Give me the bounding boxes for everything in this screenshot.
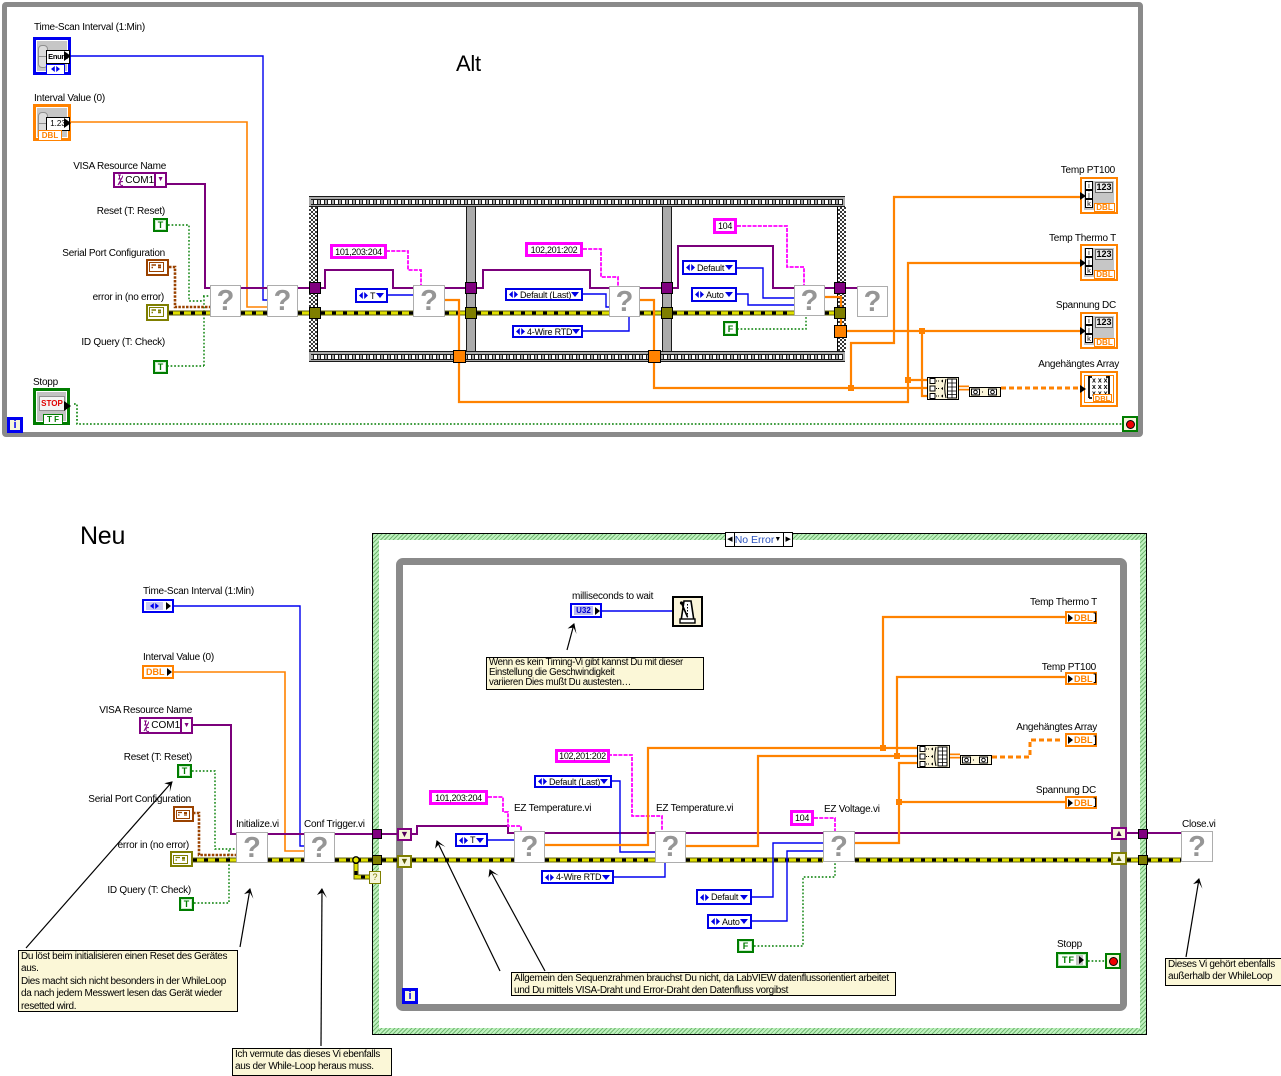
constant string 102,201:202 (Alt) <box>525 242 583 257</box>
wire orange 2D dashed (Neu) <box>992 740 1062 757</box>
label VISA Resource Name <box>73 161 166 173</box>
wire orange EZ2 out (Neu) <box>686 677 1065 846</box>
node reshape array (Alt) <box>969 384 1001 394</box>
constant F boolean (Alt) <box>723 321 738 336</box>
indicator DBL Temp Thermo T (Neu) <box>1065 611 1097 624</box>
sequence tunnel olive right <box>834 307 846 319</box>
wire brown serial config (Neu) <box>193 813 236 855</box>
label Temp PT100 (Neu) <box>1042 662 1096 674</box>
constant enum 4-Wire RTD (Alt) <box>512 325 583 338</box>
wire orange Interval Value (Alt) <box>71 122 267 307</box>
shift register purple right <box>1111 827 1127 840</box>
control Serial Port Configuration (Neu) <box>173 806 194 822</box>
wire orange EZ2 out to Temp PT100 + build array (Alt) <box>640 197 1080 388</box>
constant U32 <box>570 603 602 618</box>
wire orange EZ1 out (Neu) <box>545 617 1065 845</box>
VI EZ Temperature frame1 ? (Alt) <box>413 285 445 317</box>
wire blue Default(Last) frame2 (Alt) <box>583 294 609 307</box>
VI Initialize ? <box>236 832 268 863</box>
wire blue milliseconds (Neu) <box>602 610 672 612</box>
comment note Du löst beim initialisieren <box>18 950 238 1012</box>
constant enum Default (Neu) <box>696 889 752 905</box>
label error in (Neu) <box>118 840 189 852</box>
constant enum T (Neu) <box>455 833 488 847</box>
film band top <box>309 196 845 207</box>
label ID Query <box>81 337 165 349</box>
sequence tunnel olive bar1 <box>465 307 477 319</box>
control error in (Neu) <box>170 851 193 867</box>
label Time-Scan Interval <box>34 22 145 34</box>
VI EZ Voltage frame3 ? (Alt) <box>794 285 825 316</box>
constant F boolean (Neu) <box>737 939 754 953</box>
label Stopp <box>33 377 58 389</box>
wire blue Auto (Neu) <box>752 851 823 921</box>
VI Close ? (Neu) <box>1181 831 1213 862</box>
constant string 101,203:204 (Neu) <box>429 790 488 805</box>
wire purple VISA chain (Alt) <box>167 184 857 288</box>
label Conf Trigger.vi <box>304 819 365 831</box>
indicator DBL Spannung DC (Neu) <box>1065 796 1097 809</box>
wire blue enum T (Neu) <box>488 839 514 841</box>
indicator 2D array Angehängtes Array (Alt) <box>1080 371 1118 407</box>
loop stop condition terminal (Alt) <box>1122 416 1138 432</box>
wire pink 104 (Neu) <box>814 818 835 831</box>
VI EZ Temperature 1 ? <box>514 831 545 863</box>
case tunnel purple right <box>1138 829 1148 839</box>
flat sequence structure <box>309 196 845 362</box>
annotation arrow to Close.vi <box>1186 879 1199 957</box>
wire green F (Neu) <box>754 862 835 946</box>
control Interval Value terminal (Neu) <box>142 665 174 679</box>
sequence tunnel olive bar2 <box>661 307 673 319</box>
sequence tunnel orange frame1 bottom <box>453 350 466 363</box>
constant enum Auto (Neu) <box>707 914 752 929</box>
sequence tunnel purple right <box>834 282 846 294</box>
wire orange EZ3 out to Spannung DC + build array (Alt) <box>825 297 1080 396</box>
case structure No Error border <box>372 533 1147 1035</box>
case tunnel olive left <box>372 855 382 865</box>
indicator array Temp Thermo T (Alt) <box>1080 244 1118 281</box>
control Time-Scan terminal (Neu) <box>142 599 174 613</box>
annotation arrow to sequence wires 1 <box>437 841 500 971</box>
constant string 101,203:204 (Alt) <box>330 244 387 259</box>
control Serial Port Configuration <box>146 259 169 276</box>
label Reset (Neu) <box>124 752 192 764</box>
wire green stop (Alt) <box>74 404 1122 424</box>
wire green ID Query (Neu) <box>194 849 229 903</box>
wire blue 4-Wire RTD (Neu) <box>614 863 665 877</box>
annotation arrow to Initialize.vi <box>240 889 250 947</box>
wire orange EZ Voltage out (Neu) <box>855 763 1065 843</box>
sequence tunnel orange frame2 bottom <box>648 350 661 363</box>
wire pink 101,203:204 (Neu) <box>488 797 521 831</box>
wire blue Time-Scan (Neu) <box>174 606 304 846</box>
wire pink string frame1 (Alt) <box>386 251 421 285</box>
node reshape array (Neu) <box>960 752 992 762</box>
label Alt <box>456 53 481 75</box>
wire blue 4-Wire RTD frame2 (Alt) <box>583 317 629 331</box>
error wire trunk (Alt) <box>169 311 836 316</box>
wire pink string frame3 (Alt) <box>737 226 804 285</box>
comment note Ich vermute <box>232 1048 392 1076</box>
frame bar 1 <box>466 207 476 351</box>
constant string 104 (Neu) <box>790 810 814 826</box>
sequence tunnel olive left <box>309 307 321 319</box>
control VISA resource COM1 <box>113 172 167 188</box>
loop stop condition terminal (Neu) <box>1105 953 1121 969</box>
wire green Reset (Alt) <box>168 225 203 301</box>
label Angehängtes Array (Neu) <box>1016 722 1097 734</box>
constant string 102,201:202 (Neu) <box>555 749 610 763</box>
error probe box <box>369 871 381 884</box>
wire brown serial config (Alt) <box>169 267 210 307</box>
VI Wait ? (Alt) <box>267 285 298 317</box>
label EZ Temperature.vi 1 <box>514 803 591 815</box>
shift register purple left <box>397 828 412 841</box>
label Close.vi <box>1182 819 1216 831</box>
VI Conf Trigger ? <box>304 832 335 863</box>
wire purple VISA chain (Neu) <box>193 725 1181 834</box>
wire blue Auto frame3 (Alt) <box>737 294 794 305</box>
VI EZ Temperature frame2 ? (Alt) <box>609 286 640 317</box>
annotation arrow to Conf Trigger.vi <box>321 889 322 1046</box>
label Serial Port Configuration <box>62 248 165 260</box>
indicator DBL Temp PT100 (Neu) <box>1065 672 1097 685</box>
wire blue Time-Scan (Alt) <box>71 56 267 300</box>
wire orange Interval (Neu) <box>174 672 304 851</box>
sequence tunnel purple bar2 <box>661 282 673 294</box>
sequence tunnel purple left <box>309 282 321 294</box>
label EZ Voltage.vi <box>824 804 880 816</box>
comment note Dieses Vi gehört <box>1165 958 1281 986</box>
label Spannung DC (Neu) <box>1036 785 1096 797</box>
wire green F frame3 (Alt) <box>737 316 806 329</box>
control Time-Scan Interval enum <box>33 37 71 75</box>
label Initialize.vi <box>236 819 279 831</box>
wire orange 1D array double (Neu) <box>950 754 960 759</box>
comment note Allgemein den Sequenzrahmen <box>511 972 896 996</box>
label Temp PT100 (Alt) <box>1061 165 1115 177</box>
error wire trunk (Neu) <box>193 860 1181 877</box>
constant Reset TF <box>153 218 168 232</box>
constant enum Auto (Alt) <box>691 287 737 302</box>
label Interval Value <box>34 93 105 105</box>
error junction dot (Neu) <box>353 857 359 863</box>
constant ID Query TF (Neu) <box>179 897 194 911</box>
constant enum T (Alt) <box>355 288 388 303</box>
control Stopp TF (Neu) <box>1056 952 1088 968</box>
iteration terminal i (Neu) <box>402 988 418 1004</box>
constant ID Query TF <box>153 360 168 374</box>
VI EZ Voltage ? <box>823 831 855 862</box>
label Interval Value (Neu) <box>143 652 214 664</box>
VI Close ? (Alt) <box>857 286 888 317</box>
junction dots (Alt) <box>905 377 911 383</box>
film band bottom <box>309 351 845 362</box>
control Interval Value DBL <box>33 104 71 141</box>
sequence tunnel purple bar1 <box>465 282 477 294</box>
constant enum 4-Wire RTD (Neu) <box>541 870 614 884</box>
control error in <box>146 304 169 321</box>
annotation arrow to Reset TF <box>26 782 172 948</box>
label Temp Thermo T (Alt) <box>1049 233 1116 245</box>
wire orange EZ1 out to Temp Thermo T + build array (Alt) <box>445 263 1080 402</box>
while loop Alt <box>2 2 1143 437</box>
label milliseconds to wait <box>572 591 653 603</box>
wire blue enum T frame1 (Alt) <box>387 294 413 296</box>
label Stopp (Neu) <box>1057 939 1082 951</box>
sequence tunnel orange frame3 right <box>834 325 847 338</box>
while loop Neu <box>396 558 1127 1011</box>
wire orange 1D array double (Alt) <box>959 386 969 391</box>
constant string 104 (Alt) <box>713 218 737 234</box>
wire blue Default(Last) (Neu) <box>612 781 655 852</box>
control Stopp button <box>33 388 70 425</box>
node build array (Neu) <box>917 745 950 768</box>
shift register olive right <box>1111 852 1127 865</box>
label Time-Scan Interval (Neu) <box>143 586 254 598</box>
case tunnel purple left <box>372 829 382 839</box>
VI wait ms metronome <box>672 596 703 627</box>
constant Reset TF (Neu) <box>177 764 192 778</box>
label Spannung DC (Alt) <box>1056 300 1116 312</box>
constant enum Default (Last) (Alt) <box>505 288 583 301</box>
shift register olive left <box>397 855 412 868</box>
label error in <box>93 292 164 304</box>
wire blue Default (Neu) <box>752 843 823 897</box>
case selector No Error <box>725 532 793 547</box>
label Neu <box>80 524 125 549</box>
VI EZ Temperature 2 ? <box>655 831 686 863</box>
annotation arrow to sequence wires 2 <box>490 870 545 971</box>
control VISA COM1 (Neu) <box>139 717 193 734</box>
wire orange 2D dashed to Angehängtes Array (Alt) <box>1001 387 1080 390</box>
wire blue Default frame3 (Alt) <box>737 268 794 298</box>
node build array (Alt) <box>927 377 959 400</box>
label VISA Resource Name (Neu) <box>99 705 192 717</box>
indicator DBL Angehängtes Array (Neu) <box>1065 733 1097 747</box>
wire green ID Query (Alt) <box>167 296 210 366</box>
indicator array Temp PT100 (Alt) <box>1080 177 1118 214</box>
frame bar 2 <box>662 207 672 351</box>
label Reset <box>97 206 165 218</box>
indicator array Spannung DC (Alt) <box>1080 312 1118 349</box>
constant enum Default (Alt) <box>682 260 737 275</box>
checker right edge <box>837 207 846 351</box>
checker left edge <box>309 207 318 351</box>
comment note Wenn es kein Timing-Vi <box>486 657 704 690</box>
label ID Query (Neu) <box>107 885 191 897</box>
constant enum Default (Last) (Neu) <box>534 775 612 788</box>
wire pink string frame2 (Alt) <box>583 249 618 286</box>
wire pink 102,201:202 (Neu) <box>608 755 662 831</box>
label Angehängtes Array (Alt) <box>1038 359 1119 371</box>
label Serial Port Configuration (Neu) <box>88 794 191 806</box>
iteration terminal i (Alt) <box>7 417 23 433</box>
label EZ Temperature.vi 2 <box>656 803 733 815</box>
VI Init ? (Alt) <box>210 285 241 317</box>
wire green Reset (Neu) <box>192 771 236 849</box>
junction dots (Neu) <box>880 745 886 751</box>
annotation arrow to milliseconds U32 <box>567 624 574 650</box>
case tunnel olive right <box>1138 855 1148 865</box>
wire green Stopp (Neu) <box>1088 960 1105 962</box>
label Temp Thermo T (Neu) <box>1030 597 1097 609</box>
